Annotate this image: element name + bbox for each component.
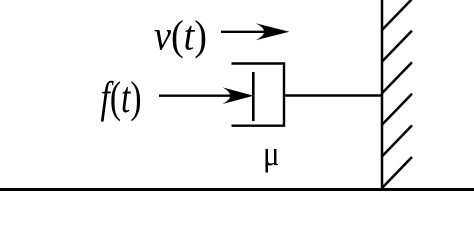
wall bbox=[381, 0, 384, 190]
velocity arrowhead bbox=[256, 23, 290, 40]
svg-text:v(t): v(t) bbox=[154, 14, 207, 60]
wall hatch 5 bbox=[382, 125, 412, 156]
damper cylinder bbox=[232, 64, 285, 126]
wall hatch 2 bbox=[382, 31, 412, 62]
svg-text:f(t): f(t) bbox=[101, 73, 142, 122]
wall hatch 1 bbox=[382, 0, 412, 30]
ground line bbox=[0, 188, 474, 191]
force arrowhead bbox=[223, 87, 254, 104]
rod to wall bbox=[283, 94, 382, 96]
wall hatch 6 bbox=[382, 157, 412, 188]
velocity arrow v(t) shaft bbox=[221, 31, 275, 33]
svg-text:μ: μ bbox=[263, 134, 280, 173]
wall hatch 4 bbox=[382, 94, 412, 125]
damper piston bbox=[252, 72, 255, 121]
force arrow f(t) shaft bbox=[159, 94, 240, 96]
wall hatch 3 bbox=[382, 62, 412, 93]
